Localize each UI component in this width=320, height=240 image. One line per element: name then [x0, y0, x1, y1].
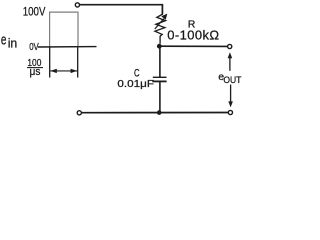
e_OUT down arrow — [228, 85, 233, 108]
e_OUT up arrow — [228, 52, 233, 71]
svg-text:in: in — [8, 37, 18, 51]
svg-text:100V: 100V — [23, 4, 46, 18]
terminal bottom-right — [228, 110, 232, 114]
terminal top-right — [228, 44, 232, 48]
label R — [188, 19, 196, 31]
label e_in — [1, 31, 17, 51]
svg-text:0.01μF: 0.01μF — [117, 78, 154, 90]
svg-text:e: e — [1, 31, 7, 49]
svg-text:0V: 0V — [29, 41, 39, 53]
label 100V — [23, 4, 46, 18]
label 0.01uF — [117, 78, 154, 90]
pulse waveform — [50, 12, 78, 47]
label us (microseconds) — [30, 66, 41, 78]
dimension extension line left — [49, 47, 51, 77]
capacitor C plates — [152, 77, 166, 81]
dimension arrow line — [50, 69, 77, 73]
wire bottom — [82, 112, 229, 114]
svg-text:0-100kΩ: 0-100kΩ — [167, 28, 219, 43]
label 0-100kOhm — [167, 28, 219, 43]
svg-text:OUT: OUT — [223, 75, 242, 85]
wire top — [80, 5, 163, 15]
label 0V — [29, 41, 39, 53]
resistor R (variable 0-100k) — [155, 14, 166, 44]
wire junction to capacitor — [159, 46, 161, 77]
terminal top-left — [75, 3, 79, 7]
rheostat arrow — [155, 14, 168, 29]
label C — [134, 67, 140, 79]
node junction under resistor — [157, 44, 162, 49]
wire capacitor to bottom — [159, 81, 161, 112]
svg-text:μs: μs — [30, 66, 41, 78]
fraction bar — [27, 67, 43, 69]
node junction bottom — [157, 110, 162, 115]
wire junction to output terminal — [159, 45, 227, 47]
dimension extension line right — [77, 47, 79, 77]
terminal bottom-left — [77, 111, 81, 115]
label e_OUT — [218, 71, 242, 85]
0V axis line — [38, 46, 97, 48]
label 100 (of 100/us) — [27, 57, 41, 69]
